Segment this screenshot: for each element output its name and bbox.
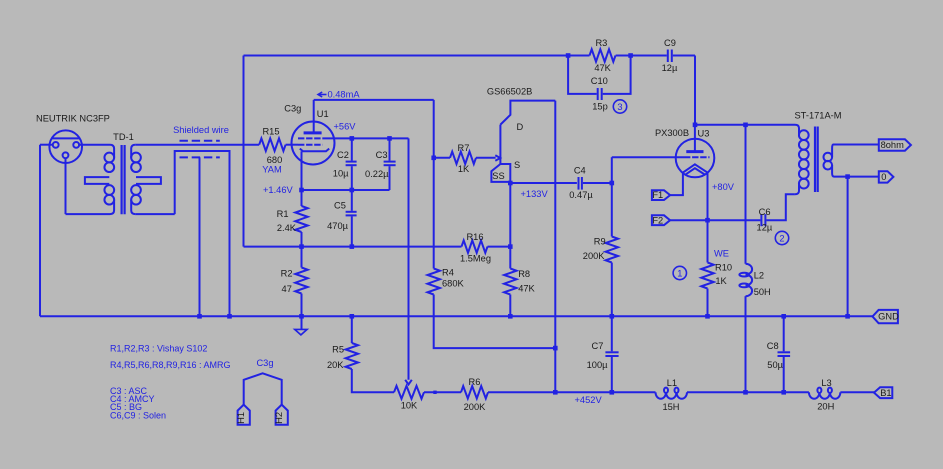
svg-text:U1: U1 xyxy=(317,109,329,119)
svg-text:680: 680 xyxy=(267,155,283,165)
svg-text:GS66502B: GS66502B xyxy=(487,87,533,97)
svg-text:C4: C4 xyxy=(574,166,586,176)
svg-text:F1: F1 xyxy=(652,190,663,200)
svg-text:470µ: 470µ xyxy=(327,221,349,231)
svg-text:TD-1: TD-1 xyxy=(113,132,134,142)
svg-text:H1: H1 xyxy=(236,412,246,424)
svg-text:50H: 50H xyxy=(754,287,771,297)
svg-text:NEUTRIK NC3FP: NEUTRIK NC3FP xyxy=(36,113,110,123)
svg-text:ST-171A-M: ST-171A-M xyxy=(794,111,841,121)
svg-text:C8: C8 xyxy=(767,341,779,351)
svg-text:+80V: +80V xyxy=(712,182,735,192)
svg-text:C3g: C3g xyxy=(284,104,301,114)
svg-text:100µ: 100µ xyxy=(587,360,609,370)
svg-text:R6: R6 xyxy=(469,377,481,387)
svg-text:R1,R2,R3 : Vishay S102: R1,R2,R3 : Vishay S102 xyxy=(110,344,207,354)
svg-text:R2: R2 xyxy=(281,268,293,278)
svg-text:R4,R5,R6,R8,R9,R16 : AMRG: R4,R5,R6,R8,R9,R16 : AMRG xyxy=(110,360,231,370)
svg-text:WE: WE xyxy=(714,249,729,259)
svg-text:20H: 20H xyxy=(817,402,834,412)
svg-text:10µ: 10µ xyxy=(333,169,349,179)
svg-text:C2: C2 xyxy=(337,150,349,160)
svg-text:C7: C7 xyxy=(592,341,604,351)
svg-text:200K: 200K xyxy=(583,251,606,261)
svg-text:R15: R15 xyxy=(262,127,279,137)
svg-text:C3: C3 xyxy=(376,150,388,160)
svg-text:R9: R9 xyxy=(594,237,606,247)
svg-text:50µ: 50µ xyxy=(767,360,783,370)
svg-text:47: 47 xyxy=(282,284,292,294)
svg-text:2: 2 xyxy=(779,233,784,243)
svg-text:R8: R8 xyxy=(518,269,530,279)
svg-text:SS: SS xyxy=(492,171,504,181)
svg-text:47K: 47K xyxy=(594,63,611,73)
svg-text:S: S xyxy=(514,160,520,170)
svg-text:+452V: +452V xyxy=(575,395,603,405)
svg-text:C6: C6 xyxy=(759,207,771,217)
svg-text:10K: 10K xyxy=(401,401,418,411)
svg-text:1: 1 xyxy=(677,268,682,278)
svg-text:15p: 15p xyxy=(592,102,608,112)
svg-text:C5: C5 xyxy=(334,201,346,211)
svg-text:L1: L1 xyxy=(667,378,677,388)
svg-text:C6,C9 : Solen: C6,C9 : Solen xyxy=(110,410,166,420)
svg-text:1K: 1K xyxy=(458,164,470,174)
svg-text:R3: R3 xyxy=(595,38,607,48)
svg-text:L3: L3 xyxy=(821,378,831,388)
svg-text:C9: C9 xyxy=(664,38,676,48)
svg-text:12µ: 12µ xyxy=(757,223,773,233)
svg-text:GND: GND xyxy=(878,311,899,321)
svg-text:0.22µ: 0.22µ xyxy=(365,169,389,179)
svg-text:R5: R5 xyxy=(332,345,344,355)
svg-text:+133V: +133V xyxy=(521,189,549,199)
svg-text:47K: 47K xyxy=(518,284,535,294)
svg-text:R4: R4 xyxy=(442,268,454,278)
svg-text:L2: L2 xyxy=(754,271,764,281)
svg-text:0.48mA: 0.48mA xyxy=(328,90,361,100)
svg-text:15H: 15H xyxy=(662,402,679,412)
svg-text:R7: R7 xyxy=(458,143,470,153)
svg-text:1K: 1K xyxy=(715,276,727,286)
svg-text:680K: 680K xyxy=(442,279,465,289)
svg-text:8ohm: 8ohm xyxy=(881,140,905,150)
svg-text:20K: 20K xyxy=(327,360,344,370)
svg-text:R16: R16 xyxy=(466,232,483,242)
svg-text:12µ: 12µ xyxy=(662,63,678,73)
svg-text:B1: B1 xyxy=(880,388,891,398)
svg-text:1.5Meg: 1.5Meg xyxy=(460,254,491,264)
svg-text:R10: R10 xyxy=(715,263,732,273)
svg-text:C10: C10 xyxy=(591,76,608,86)
svg-text:U3: U3 xyxy=(698,129,710,139)
svg-text:0: 0 xyxy=(881,172,886,182)
svg-text:Shielded wire: Shielded wire xyxy=(173,125,229,135)
svg-text:C3g: C3g xyxy=(256,358,273,368)
svg-text:R1: R1 xyxy=(277,209,289,219)
svg-text:+1.46V: +1.46V xyxy=(263,185,294,195)
svg-text:2.4K: 2.4K xyxy=(277,223,297,233)
svg-text:0.47µ: 0.47µ xyxy=(569,190,593,200)
svg-text:PX300B: PX300B xyxy=(655,128,689,138)
svg-text:F2: F2 xyxy=(652,215,663,225)
svg-text:D: D xyxy=(517,122,524,132)
svg-text:3: 3 xyxy=(617,102,622,112)
svg-text:200K: 200K xyxy=(464,402,487,412)
svg-text:+56V: +56V xyxy=(334,122,357,132)
svg-text:H2: H2 xyxy=(274,412,284,424)
svg-text:YAM: YAM xyxy=(262,165,281,175)
